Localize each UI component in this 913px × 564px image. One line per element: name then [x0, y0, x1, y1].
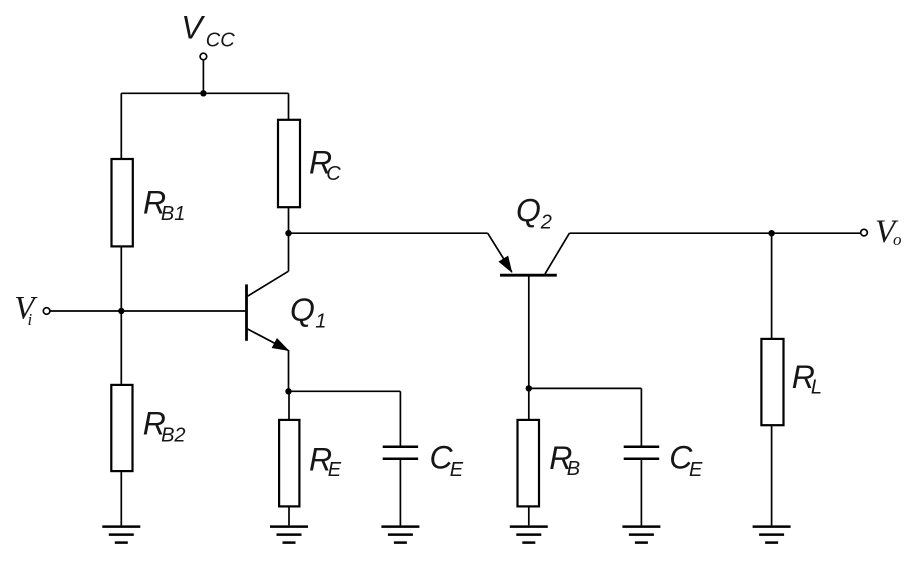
wire RL bottom to ground	[771, 425, 773, 525]
ground under RB2	[102, 527, 140, 543]
wire Q1 emitter down	[288, 350, 290, 391]
capacitor CE2	[624, 447, 660, 459]
transistor Q1	[247, 284, 289, 350]
wire Vcc stub	[202, 60, 204, 93]
wire CE2 top drop	[640, 388, 642, 445]
svg-text:B1: B1	[161, 203, 185, 225]
svg-text:Q: Q	[290, 292, 315, 328]
ground under CE1	[381, 527, 419, 543]
svg-text:E: E	[689, 459, 703, 481]
wire RB2 bottom to ground	[120, 472, 122, 526]
terminal Vo	[861, 229, 868, 236]
wire Q2 base down	[528, 277, 530, 389]
ground under RE	[270, 527, 308, 543]
wire Vi lead to Q1 base	[50, 310, 245, 312]
ground under RL	[753, 527, 791, 543]
node Q1 emitter	[285, 388, 291, 394]
svg-text:2: 2	[540, 212, 552, 234]
svg-text:L: L	[811, 376, 822, 398]
wire Q2 emitter diagonal	[488, 233, 512, 272]
wire Vi node to RB2	[120, 311, 122, 384]
svg-text:CC: CC	[206, 30, 235, 52]
ground under CE2	[622, 527, 660, 543]
wire Q2 collector diagonal	[545, 233, 569, 274]
wire top bus	[121, 92, 288, 94]
svg-text:1: 1	[315, 311, 326, 333]
resistor RL	[761, 339, 783, 425]
wire CE1 top drop	[399, 391, 401, 445]
wire RE top drop	[288, 391, 290, 419]
wire RC bottom to collector node	[288, 208, 290, 271]
svg-text:E: E	[450, 459, 464, 481]
wire RB bottom to ground	[528, 507, 530, 525]
wire RC top drop	[288, 93, 290, 119]
node output	[768, 230, 774, 236]
svg-text:E: E	[328, 459, 342, 481]
resistor RB2	[111, 385, 132, 471]
wire CE2 bottom to ground	[640, 460, 642, 526]
svg-text:Q: Q	[516, 193, 541, 229]
wire RB top drop	[528, 388, 530, 419]
node Q2 base	[526, 385, 532, 391]
wire RE bottom to ground	[288, 507, 290, 525]
wire emitter bus to CE1	[289, 390, 401, 392]
wire CE1 bottom to ground	[399, 460, 401, 526]
svg-text:B: B	[567, 458, 580, 480]
transistor Q2	[499, 256, 557, 275]
wire left rail to RB1	[120, 93, 122, 158]
wire Q1 emitter diagonal	[248, 329, 289, 350]
resistor RB1	[112, 159, 133, 246]
wire Q1 collector diagonal	[248, 271, 289, 296]
terminal Vi	[43, 308, 50, 315]
svg-text:o: o	[893, 230, 902, 249]
resistor RC	[278, 120, 300, 207]
node Q1 collector	[285, 230, 291, 236]
svg-text:B2: B2	[161, 425, 185, 447]
svg-text:V: V	[14, 291, 38, 327]
svg-text:V: V	[181, 10, 205, 46]
node Vcc junction	[200, 90, 206, 96]
wire collector bus to Q2	[289, 232, 488, 234]
wire RL top drop	[771, 233, 773, 339]
capacitor CE1	[383, 447, 418, 459]
resistor RE	[279, 420, 299, 507]
node Vi junction	[118, 308, 124, 314]
wire base bus to CE2	[529, 387, 642, 389]
svg-text:C: C	[326, 163, 341, 185]
ground under RB	[510, 527, 548, 543]
resistor RB	[518, 420, 540, 507]
wire output bus	[569, 232, 860, 234]
terminal Vcc	[200, 53, 207, 60]
wire RB1 bottom to Vi node	[120, 247, 122, 311]
svg-text:i: i	[28, 310, 33, 329]
